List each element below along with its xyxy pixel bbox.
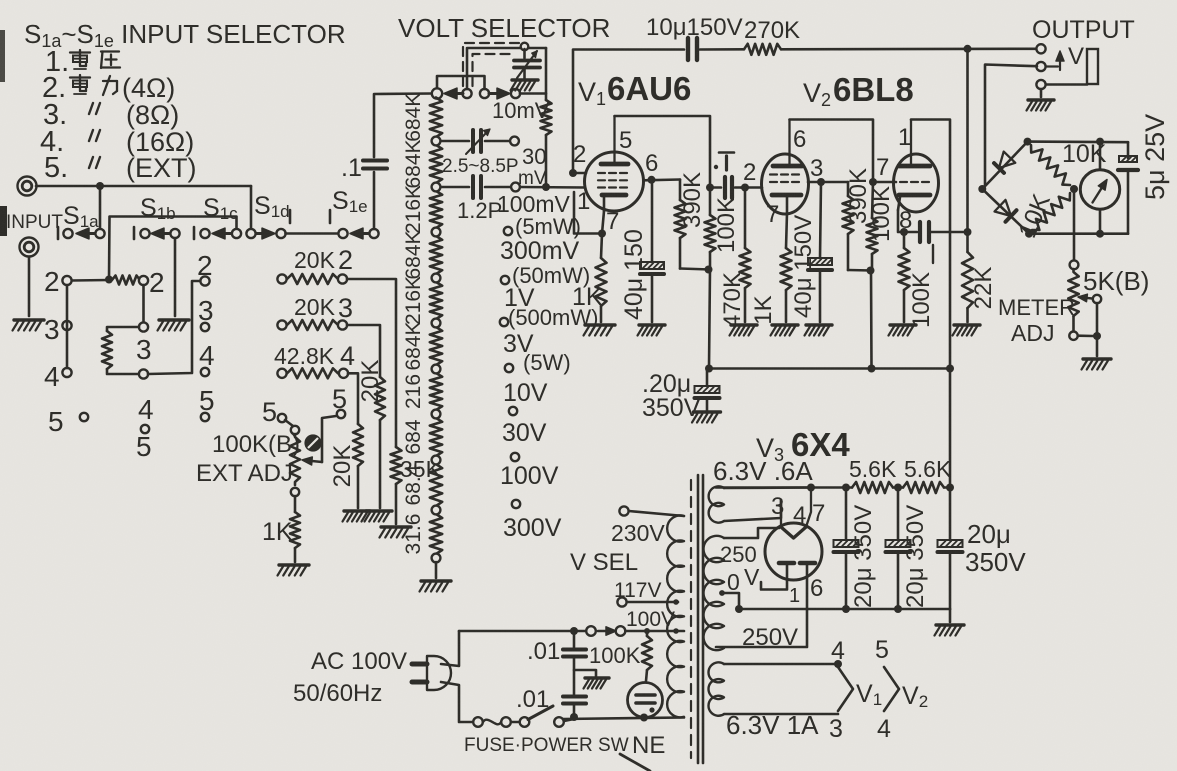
- resistor 20K row 3: [277, 293, 353, 330]
- ladder tap 4: [432, 274, 441, 283]
- switch S1a contact 3 label: [44, 314, 60, 345]
- resistor 42.8K row 4: [274, 341, 355, 378]
- terminal tap (50mW): [501, 276, 509, 284]
- capacitor .01 upper: [527, 631, 586, 694]
- switch S1b contact 5 label: [136, 431, 152, 462]
- terminal tap 100V: [512, 500, 520, 508]
- diode D2 bridge lower: [995, 200, 1017, 222]
- wire 390K bottom rail to B+ node: [680, 269, 710, 270]
- junction bridge center node: [1070, 185, 1078, 193]
- wire B- to ground: [949, 609, 952, 622]
- text tap (5mW): [515, 214, 581, 239]
- wire triode plate to B+: [911, 120, 950, 368]
- junction B+ right: [946, 365, 954, 373]
- tube V3 plates V shape: [781, 527, 806, 538]
- capacitor 20u 350V third: [938, 488, 1027, 610]
- switch S1b position-1 tick: [133, 227, 136, 239]
- transformer T1 core: [691, 475, 703, 763]
- ground 100K triode: [889, 325, 917, 336]
- terminal 100mV tap: [511, 183, 520, 192]
- wire heater bottom lead to pin3: [724, 500, 781, 521]
- potentiometer 5K(B) METER ADJ: [1068, 260, 1149, 340]
- mechanical link dashed inner: [473, 54, 513, 86]
- text tap (50mW): [512, 263, 590, 288]
- ground line filter: [584, 678, 610, 689]
- resistor 5.6K first: [852, 482, 893, 493]
- switch S1d contact 5: [278, 414, 286, 422]
- text V1 pin 5: [619, 127, 632, 154]
- text V2 pin 7 top: [876, 154, 889, 181]
- switch S1c contact 3: [201, 323, 209, 331]
- mechanical link dashed outer: [463, 43, 523, 86]
- junction V2 plate node: [817, 178, 825, 186]
- capacitor .1: [341, 154, 387, 182]
- transformer T1 heater winding 6.3V .6A: [709, 456, 814, 523]
- junction rail output node: [964, 45, 972, 53]
- junction B- cap1: [842, 605, 850, 613]
- switch S1e position-1 tick: [329, 210, 332, 223]
- resistor 1K EXT: [262, 496, 300, 562]
- potentiometer 100K(B) EXT ADJ: [196, 416, 336, 496]
- text V2 triode pin 1: [898, 124, 911, 151]
- junction output node: [964, 228, 972, 236]
- junction V1 pin2 feedback node: [569, 169, 577, 177]
- wire V1 screen pin6: [644, 178, 680, 181]
- wire V2 screen node to triode grid: [873, 181, 896, 184]
- ladder tap 3: [432, 228, 441, 237]
- text legend heading S1a~S1e INPUT SELECTOR: [24, 19, 346, 51]
- wire S1a contact2 to node: [72, 279, 109, 282]
- tube V2 pentode grid rows dashed: [770, 175, 799, 183]
- tube V2 pentode cathode bar: [772, 195, 801, 213]
- switch S1e contacts and wiper arrow: [338, 228, 378, 239]
- wire pot to ground: [1096, 336, 1099, 356]
- text tap 1V: [504, 284, 535, 312]
- junction B- cap2: [894, 605, 902, 613]
- switch S1a contact 3: [62, 321, 71, 330]
- capacitor 40u 150 screen bypass: [620, 180, 664, 322]
- wire V1 plate top rail: [615, 116, 711, 185]
- wire bridge top rail: [1028, 140, 1129, 143]
- resistor 1K V1 cathode: [572, 234, 607, 323]
- transformer T1 HV winding 250-0-250: [704, 536, 724, 650]
- junction rail pin7: [807, 484, 815, 492]
- wire S1d to S1e: [286, 232, 339, 235]
- text V2 6BL8 label: [803, 71, 914, 110]
- wire heater top lead: [724, 486, 811, 489]
- junction rail cap2: [894, 484, 902, 492]
- ground ladder: [420, 581, 452, 592]
- text heater pin 4 bottom: [877, 715, 891, 743]
- ground 22K: [953, 325, 981, 336]
- ground trimmer: [511, 80, 539, 91]
- resistor 22K output load: [962, 232, 997, 322]
- text 10u 150V label: [646, 14, 743, 41]
- text OUTPUT heading: [1032, 16, 1135, 44]
- ladder tap 8: [432, 456, 441, 465]
- switch S1a contact 2 label: [44, 266, 60, 297]
- switch S1a contact 2: [62, 276, 71, 285]
- lamp NE neon: [628, 683, 663, 718]
- text FUSE POWER SW label: [464, 735, 629, 756]
- text legend item 1 voltage: [45, 46, 120, 78]
- connector phone jack body: [1087, 49, 1098, 84]
- text 50/60Hz: [293, 680, 382, 707]
- wire fuse to switch: [511, 721, 520, 724]
- wire V1 B+ node down to rail: [709, 270, 710, 368]
- junction rail right: [946, 484, 954, 492]
- ground 20K shunt row3: [365, 511, 393, 522]
- wire B- return rail: [739, 608, 950, 611]
- switch S1b contact 2: [139, 276, 148, 285]
- transformer T1 heater winding 6.3V 1A: [708, 662, 819, 740]
- wire plug hot to line: [441, 631, 459, 666]
- switch S1b label: [140, 194, 176, 223]
- wire row4 to 20K shunt: [348, 373, 358, 424]
- switch S1b contact 5: [141, 425, 149, 433]
- wire B+ right down to filter rail: [949, 369, 952, 488]
- terminal output sleeve: [1036, 80, 1045, 89]
- junction triode cathode node: [900, 228, 908, 236]
- junction bridge input node: [978, 185, 986, 193]
- resistor 10K bridge upper: [1031, 140, 1107, 185]
- wire HV top lead to plates: [724, 528, 779, 538]
- tube V2 triode cathode bar: [898, 195, 930, 210]
- ground 20K shunt row4: [343, 511, 371, 522]
- text legend item 3 8 ohm: [43, 99, 179, 131]
- terminal contact 5 upper: [337, 410, 345, 418]
- text 250V bottom label: [742, 624, 798, 651]
- text V1 pin 7: [606, 208, 619, 235]
- trimmer capacitor at selector: [514, 49, 540, 79]
- wire row3 to 20K shunt: [347, 325, 380, 377]
- ground 35K: [380, 527, 412, 538]
- text METER ADJ label: [998, 295, 1075, 346]
- ground 1K V1: [584, 325, 616, 336]
- junction bridge top corner: [1024, 138, 1032, 146]
- wire rail between: [893, 486, 903, 489]
- text AC 100V: [311, 648, 407, 675]
- wire S1a contacts 2-3-4 strap: [66, 285, 69, 368]
- terminal tap (5mW): [504, 227, 512, 235]
- wire B+ rail: [709, 367, 950, 370]
- wire bridge lower-left diagonal: [982, 189, 1029, 234]
- switch S2 wiper row: [432, 88, 520, 99]
- tube V3 6X4 envelope: [765, 523, 822, 580]
- text legend item 4 16 ohm: [40, 126, 194, 158]
- text 0 V label: [727, 564, 760, 595]
- text NE label: [632, 732, 665, 759]
- text 100mV label: [497, 191, 571, 217]
- junction 100K top: [644, 628, 650, 634]
- switch S1a contact 5 label: [48, 406, 64, 437]
- ground .20u 350V: [692, 412, 721, 423]
- junction lower cap to line: [570, 713, 578, 721]
- text V3 pin 6: [810, 575, 823, 602]
- junction AC hot node: [570, 627, 578, 635]
- wire HV center tap: [722, 593, 739, 609]
- wire S2 wiper2 to trimmer node: [467, 48, 546, 89]
- text V SEL: [570, 549, 638, 576]
- switch S1a position-1 tick: [57, 227, 60, 239]
- text V3 pin 1: [789, 585, 800, 607]
- switch SW power: [520, 706, 564, 727]
- wire switch to line: [564, 719, 574, 721]
- junction HV center tap: [719, 590, 725, 596]
- trimmer capacitor 2.5~8.5P: [441, 129, 519, 177]
- switch S1b contacts and wiper arrow: [140, 228, 179, 239]
- wire V1 cathode to node: [574, 192, 604, 234]
- text tap 30V: [502, 419, 547, 447]
- tube V2 triode plate bar and stem: [899, 120, 930, 167]
- wire S1d-5 to pot top: [285, 420, 293, 426]
- fuse F1: [473, 717, 511, 727]
- ground 1K EXT: [278, 565, 310, 576]
- text 30mV label: [518, 144, 547, 189]
- switch S1c contact 5: [201, 413, 209, 421]
- switch S1b contact 4: [139, 369, 148, 378]
- switch S1d contacts and wiper arrow: [246, 228, 285, 239]
- junction V2 screen node: [869, 178, 877, 186]
- transformer T1 primary winding: [667, 515, 684, 717]
- wire input top run to S1d: [100, 186, 251, 229]
- text 250 label: [720, 542, 757, 567]
- ground 470K: [730, 325, 758, 336]
- wire wiper4 to 10mV top: [520, 92, 546, 95]
- wire V2 pentode plate pin3: [808, 181, 848, 184]
- switch S1a contact 4: [62, 368, 71, 377]
- switch S1d position-1 tick: [289, 210, 292, 223]
- text 5.6K second: [904, 456, 952, 482]
- ground meter adj: [1082, 359, 1112, 370]
- text V1 pin 2: [573, 141, 586, 168]
- resistor 20K shunt row3: [357, 360, 385, 508]
- wire S1b contact 2 to 3: [142, 285, 145, 322]
- ladder tap 9: [432, 506, 441, 515]
- terminal tap 30V: [511, 453, 519, 461]
- ground output jack: [1027, 100, 1055, 111]
- ground 1K V2: [771, 325, 799, 336]
- resistor 100K V2: [867, 182, 896, 270]
- diode D1 bridge upper: [994, 152, 1015, 173]
- wire 6.3V1A top lead: [724, 663, 838, 666]
- text .20u 350V label: [642, 370, 701, 422]
- text V2 pin 3: [810, 155, 823, 182]
- junction V1 plate node: [706, 184, 714, 192]
- ground input jack: [13, 320, 45, 331]
- junction S1a-2 node: [105, 276, 113, 284]
- wire bridge upper-left diagonal: [982, 142, 1027, 189]
- switch S1c position-1 tick: [193, 227, 196, 239]
- junction input node: [96, 182, 104, 190]
- wire input node down to S1a: [99, 186, 102, 229]
- wire V2 top rail to 100K: [790, 120, 874, 181]
- text tap 100V: [500, 462, 559, 490]
- text V2 grid pin 2: [743, 159, 756, 186]
- wire S1e to .1 cap: [373, 172, 376, 229]
- resistor S1b 3-4 (unlabeled): [102, 327, 139, 374]
- tube V1 plate bar and pin5 stem: [601, 116, 628, 164]
- wire V2 grid line: [741, 186, 762, 189]
- switch S1a contact 4 label: [44, 361, 60, 392]
- wire cap midpoint to ground: [574, 670, 596, 676]
- wire AC neutral line: [563, 718, 684, 720]
- ground 40u 150V V2: [805, 325, 833, 336]
- switch S1a label: [63, 202, 99, 231]
- capacitor 20u 350V second: [886, 488, 930, 610]
- wire ladder bottom to ground: [435, 562, 438, 578]
- wire V3 cathode right stem to 250V lead: [716, 565, 807, 647]
- resistor 270K feedback: [744, 44, 781, 55]
- tube V1 grid rows dashed: [598, 173, 627, 188]
- resistor 35K: [391, 447, 442, 524]
- resistor 1K V2 cathode: [750, 213, 792, 325]
- terminal tap (500mW): [500, 318, 508, 326]
- text V2 pin 6: [793, 126, 806, 153]
- resistor 100K triode cathode load: [899, 232, 936, 328]
- tube V2 pentode plate bar and pin6 stem: [773, 120, 802, 167]
- wire input jack to node: [36, 185, 100, 188]
- capacitor 5u 25V: [1118, 114, 1170, 200]
- text 117V: [614, 579, 662, 602]
- text 5.6K first: [849, 456, 897, 482]
- switch S1b contact 4 label: [138, 394, 154, 425]
- text 35K side note none: [0, 0, 1, 1]
- wire plug neutral to fuse: [441, 682, 472, 722]
- wire S1a-2 node bracket to S1c right contact: [109, 217, 237, 280]
- resistor 10mV: [492, 48, 552, 187]
- text V1 6AU6 label: [578, 70, 691, 109]
- ladder tap 1: [432, 137, 441, 146]
- resistor 10K bridge lower: [1013, 190, 1070, 242]
- plug voltage selector male-female: [586, 626, 625, 636]
- tube V1 cathode bar: [602, 195, 626, 211]
- capacitor .01 lower: [516, 686, 586, 717]
- wire rail right end: [944, 486, 950, 489]
- junction V2 B+ node: [867, 267, 875, 275]
- tube V3 cathode bars: [779, 561, 815, 566]
- text tap 10V: [503, 379, 548, 407]
- switch S1c contact 4: [201, 368, 209, 376]
- tube V2 triode envelope: [894, 154, 939, 212]
- terminal tap (5W): [505, 364, 513, 372]
- ladder tap 7: [432, 410, 441, 419]
- capacitor 10u 150V: [688, 38, 697, 60]
- wire 390K-100K bottom rail: [848, 269, 872, 272]
- tube V1 6AU6 envelope: [585, 152, 644, 211]
- text V3 pin 3: [771, 493, 784, 520]
- wire rail cap to resistor: [700, 48, 744, 51]
- text V2 pin 8: [899, 207, 912, 234]
- text V3 pin 7: [812, 500, 825, 527]
- terminal 30mV tap: [510, 137, 519, 146]
- connector INPUT jack ground: [20, 238, 39, 257]
- capacitor 20u 350V first: [834, 488, 878, 610]
- wire output ring to bridge: [982, 65, 1037, 190]
- ground 40u 150: [638, 325, 666, 336]
- switch S1d label: [254, 192, 290, 221]
- resistor 20K row 2: [277, 245, 353, 284]
- wire bridge center to pot: [1073, 189, 1076, 260]
- junction B+ left: [705, 365, 713, 373]
- text tap (5W): [523, 350, 571, 375]
- resistor 5.6K second: [903, 482, 944, 493]
- junction V1 screen node: [648, 176, 656, 184]
- switch S1b contact 3 label: [136, 334, 152, 365]
- wire 100V tap to winding: [626, 628, 685, 634]
- text heater pin 5 top: [875, 636, 889, 664]
- junction NE bottom: [640, 714, 648, 722]
- terminal output tip: [1036, 44, 1045, 53]
- text 270K label: [744, 17, 800, 44]
- junction rail cap1: [842, 484, 850, 492]
- wire row2 to 35K: [347, 279, 396, 447]
- switch S1d contact 5 label: [262, 397, 277, 427]
- switch S1c contact 2: [200, 276, 209, 285]
- connector AC plug: [412, 656, 451, 690]
- text heater pin 4 top: [831, 637, 845, 665]
- wire V1 g3 pin2 line: [573, 172, 586, 175]
- wire 230V lead: [629, 511, 684, 516]
- text V1 pin 6: [645, 150, 658, 177]
- connector heater V2 chevron: [884, 667, 928, 711]
- text legend item 2 power 4 ohm: [42, 72, 175, 104]
- wire 117V lead: [627, 599, 679, 605]
- terminal 117V tap: [617, 597, 626, 606]
- junction heater V1 top: [834, 660, 842, 668]
- connector heater V1 chevron: [838, 667, 882, 711]
- switch S1c contact 4 label: [199, 340, 215, 371]
- wire feedback rail left leg: [573, 50, 684, 174]
- text contact 5 upper label: [332, 384, 347, 414]
- junction V1 cathode node: [598, 230, 606, 238]
- capacitor output coupling: [920, 222, 933, 263]
- switch S1c contact 2 label: [197, 250, 213, 281]
- wire 100mV tap to V1 grid: [520, 186, 585, 189]
- text INPUT label: [0, 206, 63, 236]
- resistor 470K V2 grid leak: [719, 188, 751, 329]
- capacitor coupling V1-V2: [710, 153, 741, 199]
- switch S1c contacts and wiper arrow: [200, 228, 241, 239]
- junction 470K node: [741, 184, 749, 192]
- resistor 100K NE series: [589, 631, 652, 681]
- junction V1 B+ node: [705, 266, 713, 274]
- wire bridge right side: [1127, 142, 1130, 234]
- scan artifact left edge mark: [0, 30, 5, 82]
- switch S1b contact 3: [139, 322, 148, 331]
- wire heater-cathode rail: [716, 486, 852, 489]
- switch S1c contact 3 label: [198, 295, 214, 326]
- connector INPUT jack hot: [18, 177, 37, 196]
- resistor between S1a-2 and S1b-2 (unlabeled): [112, 276, 140, 285]
- terminal 230V tap: [619, 506, 628, 515]
- ground S1b: [158, 320, 190, 331]
- junction bridge bottom corner: [1025, 230, 1033, 238]
- terminal tap 10V: [509, 407, 517, 415]
- junction grid node: [542, 183, 550, 191]
- text V1 pin 1: [577, 188, 590, 215]
- switch S1a contact 5: [80, 413, 88, 421]
- ladder tap 2: [432, 183, 441, 192]
- tube V2 pentode envelope: [762, 154, 809, 214]
- junction meter adj ground node: [1093, 332, 1101, 340]
- resistor ladder chain values 684K..31.6: [402, 93, 442, 555]
- ladder bottom terminal: [432, 554, 441, 563]
- wire triode cathode down: [898, 210, 917, 232]
- text legend item 5 EXT: [44, 152, 197, 184]
- text tap 300mV: [500, 237, 580, 265]
- text V3 6X4 label: [756, 426, 850, 465]
